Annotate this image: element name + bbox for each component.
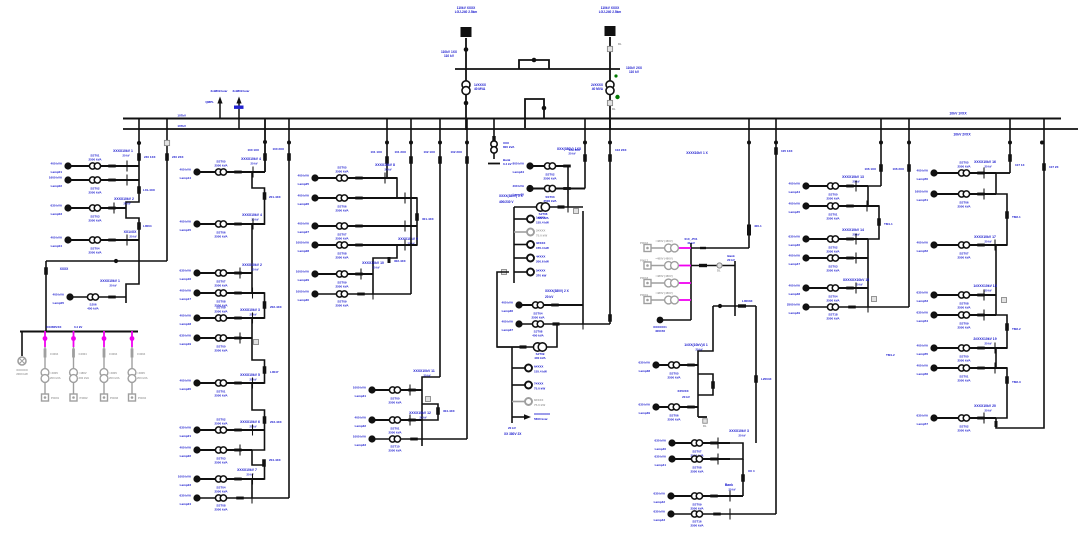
wire feeder L4 — [288, 118, 290, 499]
svg-text:XXXX10kV 11: XXXX10kV 11 — [413, 369, 435, 373]
svg-text:1600 kVA: 1600 kVA — [49, 176, 63, 180]
value label C1-3 — [88, 215, 102, 223]
load Lamp18 — [193, 314, 200, 321]
load Lamp35 — [526, 185, 533, 192]
svg-text:106 2XX: 106 2XX — [892, 167, 904, 171]
svg-text:2500 kVA: 2500 kVA — [214, 283, 228, 287]
load panel P4002 — [70, 394, 77, 401]
svg-text:630 kVA: 630 kVA — [180, 426, 192, 430]
svg-text:Lamp02: Lamp02 — [51, 184, 63, 188]
svg-text:400 kVA: 400 kVA — [917, 169, 929, 173]
wire house branch — [70, 296, 126, 298]
disconnector C3-4 — [404, 240, 406, 251]
wire feeder L14 — [775, 118, 777, 515]
breaker closed feeder 2 — [71, 336, 76, 341]
value label C5-1 — [543, 173, 557, 181]
svg-text:20 kV: 20 kV — [984, 342, 991, 346]
breaker CB left open — [502, 270, 507, 275]
svg-text:=480V: =480V — [137, 371, 145, 375]
disconnector C9-8 — [983, 413, 985, 424]
svg-text:Lamp45: Lamp45 — [789, 210, 801, 214]
load Lamp37 — [515, 320, 522, 327]
wire feeder branch C2-10 — [197, 478, 265, 480]
wire branch C7-6 to feeder L16 — [806, 306, 909, 308]
transformer C4-1 — [389, 387, 400, 393]
breaker column3 b — [388, 257, 391, 263]
disconnector maintenance I — [567, 202, 569, 213]
wire house left drop — [45, 261, 47, 331]
breaker C3-1 — [355, 177, 363, 180]
svg-text:Lamp01: Lamp01 — [51, 170, 63, 174]
breaker T2 LV open — [607, 100, 612, 105]
svg-text:LGJ-240 2.5km: LGJ-240 2.5km — [599, 10, 622, 14]
disconnector column4 a — [436, 407, 440, 415]
transformer 380V feeder 4 — [128, 369, 136, 383]
load Lamp55 — [930, 344, 937, 351]
value label C5-4 — [532, 330, 544, 338]
value label C6-6 — [690, 520, 704, 528]
load Lamp17 — [193, 289, 200, 296]
svg-text:C4004: C4004 — [109, 352, 118, 356]
wire collector right-center — [730, 443, 743, 459]
label motor M4 — [536, 255, 549, 264]
value label C2-2 — [214, 231, 228, 239]
wire branch C4-3 to feeder L8 — [372, 438, 467, 440]
svg-text:XXXX10kV 6: XXXX10kV 6 — [240, 420, 260, 424]
svg-text:400 kVA: 400 kVA — [355, 416, 367, 420]
transformer C7-1 — [827, 183, 838, 189]
breaker C6-4 — [710, 458, 718, 461]
transformer C3-5 — [336, 271, 347, 277]
svg-text:2500 kVA: 2500 kVA — [957, 378, 971, 382]
svg-text:Lamp32: Lamp32 — [355, 424, 367, 428]
svg-text:Lamp37: Lamp37 — [502, 328, 514, 332]
wire feeder branch C3-4 — [315, 244, 417, 246]
svg-text:101 1XX: 101 1XX — [370, 150, 382, 154]
wire maintenance 380V header — [514, 206, 583, 208]
label transformer feeder 3 — [109, 371, 120, 380]
wire motor branch 1 — [514, 218, 527, 220]
svg-text:20 kV: 20 kV — [423, 374, 430, 378]
svg-text:XXXX10kV 7: XXXX10kV 7 — [237, 468, 257, 472]
svg-text:Lamp17: Lamp17 — [180, 297, 192, 301]
svg-text:XXXX10kV 4: XXXX10kV 4 — [242, 213, 262, 217]
svg-text:630 kVA: 630 kVA — [654, 492, 666, 496]
svg-text:P0019: P0019 — [640, 293, 649, 297]
svg-text:400 kVA: 400 kVA — [917, 364, 929, 368]
disconnector column9 a — [1005, 211, 1009, 219]
disconnector C2-5 — [252, 313, 254, 324]
load label Lamp04 — [51, 236, 63, 249]
svg-text:400 kVA: 400 kVA — [917, 241, 929, 245]
breaker C5-4 — [553, 322, 560, 325]
label motor M7 — [534, 382, 545, 391]
svg-text:2x9809 kvar: 2x9809 kvar — [232, 89, 250, 93]
breaker C1-3 — [108, 207, 116, 210]
svg-text:1#XXX: 1#XXX — [536, 216, 545, 220]
svg-text:2500 kVA: 2500 kVA — [214, 309, 228, 313]
svg-text:400 kVA: 400 kVA — [789, 202, 801, 206]
breaker C6-5 — [710, 495, 718, 498]
disconnector L12 lower — [608, 314, 612, 322]
svg-text:2500 kVA: 2500 kVA — [690, 523, 704, 527]
breaker column2 open — [254, 340, 259, 345]
value label C9-4 — [957, 302, 971, 310]
svg-text:400 kVA: 400 kVA — [789, 284, 801, 288]
svg-text:Lamp40: Lamp40 — [655, 447, 667, 451]
load label Lamp23 — [178, 475, 192, 488]
disconnector column2 a — [263, 192, 267, 200]
breaker house branch — [108, 296, 116, 299]
disconnector column9 c — [1005, 376, 1009, 384]
value label C6-5 — [690, 503, 704, 511]
svg-text:Lamp24: Lamp24 — [180, 502, 192, 506]
transformer C5-1 — [544, 163, 555, 169]
load label Lamp45 — [789, 202, 801, 215]
disconnector C3-1 — [384, 173, 386, 184]
breaker C5-2 — [563, 187, 571, 190]
svg-text:3#XXX: 3#XXX — [536, 241, 545, 245]
motor M2 — [527, 229, 534, 236]
net label group 2e — [240, 373, 260, 382]
transformer T2 main — [606, 81, 614, 95]
svg-text:240 2XX: 240 2XX — [172, 155, 184, 159]
svg-text:630 kVA: 630 kVA — [639, 361, 651, 365]
svg-text:102 2XX: 102 2XX — [450, 150, 462, 154]
fuse feeder 4 — [131, 349, 134, 358]
svg-text:400 kVA: 400 kVA — [532, 333, 544, 337]
svg-text:TM2-1: TM2-1 — [1012, 215, 1021, 219]
net label group 6b — [725, 483, 736, 492]
wire feeder branch C1-2 — [68, 179, 139, 181]
wire collector right-center lower — [742, 459, 744, 496]
load Lamp46 — [802, 235, 809, 242]
bus 380V house — [20, 331, 138, 333]
svg-text:XXXX: XXXX — [60, 267, 69, 271]
svg-text:=480V: =480V — [50, 371, 58, 375]
transformer C2-1 — [215, 169, 226, 175]
svg-text:400 kVA: 400 kVA — [51, 236, 63, 240]
load Lamp20 — [193, 379, 200, 386]
svg-text:XXXX10kV 10: XXXX10kV 10 — [362, 261, 384, 265]
svg-text:20 kV: 20 kV — [984, 409, 991, 413]
svg-text:200.6 kW: 200.6 kW — [536, 260, 549, 264]
generator G1 standby — [18, 357, 26, 365]
disconnector L11 — [583, 154, 587, 162]
load label Lamp41 — [655, 455, 667, 468]
breaker C9-1 — [977, 172, 985, 175]
disconnector C4-1 — [409, 385, 411, 396]
svg-text:2500 kVA: 2500 kVA — [826, 249, 840, 253]
value label C2-9 — [214, 457, 228, 465]
svg-text:400 kVA: 400 kVA — [789, 182, 801, 186]
source label line B — [599, 6, 622, 14]
load label Lamp37 — [502, 320, 514, 333]
svg-text:400 kVA: 400 kVA — [180, 220, 192, 224]
transformer C2-4 — [215, 290, 226, 296]
load label Lamp51 — [915, 190, 929, 203]
svg-text:105 1XX: 105 1XX — [781, 149, 793, 153]
svg-text:204-4XX: 204-4XX — [269, 458, 281, 462]
disconnector C7-3 — [855, 234, 857, 245]
svg-text:2500 kVA: 2500 kVA — [388, 430, 402, 434]
net label feeder group 1c — [124, 230, 138, 239]
label generator G1 — [16, 368, 28, 376]
breaker C3-3 — [355, 225, 363, 228]
wire emergency bottom — [660, 319, 691, 321]
disconnector L2 — [165, 153, 169, 161]
breaker C9-3 — [977, 244, 985, 247]
svg-text:304-4XX: 304-4XX — [443, 409, 455, 413]
svg-text:Lamp05: Lamp05 — [53, 301, 65, 305]
wire feeder branch C3-3 — [315, 225, 417, 227]
svg-text:Lamp16: Lamp16 — [180, 277, 192, 281]
disconnector column2 b — [263, 301, 267, 309]
junction house header — [114, 259, 118, 263]
indicator green 1 — [614, 74, 617, 77]
svg-text:7#XXX: 7#XXX — [534, 382, 543, 386]
wire feeder branch C5-3 — [519, 304, 583, 306]
svg-text:P0017: P0017 — [640, 259, 649, 263]
svg-text:Lamp28: Lamp28 — [298, 249, 310, 253]
svg-text:P0016: P0016 — [640, 241, 649, 245]
svg-text:2500 kVA: 2500 kVA — [690, 469, 704, 473]
svg-text:40 MVA: 40 MVA — [474, 87, 486, 91]
svg-text:400 kVA: 400 kVA — [502, 301, 514, 305]
svg-text:=480V: =480V — [109, 371, 117, 375]
wire feeder branch C6-3 — [672, 442, 730, 444]
value label C2-8 — [214, 418, 228, 426]
breaker C3-2 — [355, 197, 363, 200]
svg-text:5#XXX: 5#XXX — [536, 269, 545, 273]
breaker C6-2 — [687, 406, 695, 409]
svg-text:630 kVA: 630 kVA — [180, 494, 192, 498]
transformer C3-1 — [336, 175, 347, 181]
label motor M5 — [536, 269, 547, 278]
value label C7-2 — [826, 213, 840, 221]
load label Lamp34 — [513, 162, 525, 175]
svg-text:107kV: 107kV — [177, 124, 186, 128]
load label Lamp18 — [180, 314, 192, 327]
breaker row2 — [699, 264, 707, 267]
disconnector C3-5 — [360, 269, 362, 280]
wire feeder branch C9-8 — [934, 417, 996, 419]
svg-text:4#XXX: 4#XXX — [536, 255, 545, 259]
breaker C2-3 — [234, 272, 242, 275]
load label Lamp43 — [654, 510, 666, 523]
value label C7-6 — [826, 313, 840, 321]
transformer C9-1 — [958, 170, 969, 176]
breaker T1 LV — [464, 101, 469, 106]
svg-text:100 1XX: 100 1XX — [247, 148, 259, 152]
transformer C2-8 — [215, 427, 226, 433]
breaker C9-4 — [977, 294, 985, 297]
wire capacitor header — [713, 305, 756, 307]
svg-text:Lamp50: Lamp50 — [917, 177, 929, 181]
load label Lamp22 — [180, 446, 192, 459]
value label C3-6 — [335, 300, 349, 308]
disconnector C5-2 — [567, 183, 569, 194]
transformer gray feeder 4 — [665, 296, 679, 304]
breaker C1-4 — [108, 239, 116, 242]
ground capacitor collector — [698, 416, 707, 418]
disconnector wrap — [995, 421, 998, 427]
label motor M6 — [534, 365, 547, 374]
svg-text:200 kVA: 200 kVA — [50, 376, 61, 380]
breaker C7-4 — [846, 257, 854, 260]
svg-text:2500 kVA: 2500 kVA — [335, 303, 349, 307]
load label Lamp36 — [502, 301, 514, 314]
transformer C7-6 — [827, 304, 838, 310]
transformer C1-1 — [89, 163, 100, 169]
svg-text:2500 kVA: 2500 kVA — [214, 163, 228, 167]
svg-text:0.4 kV: 0.4 kV — [74, 325, 82, 329]
svg-text:Lamp56: Lamp56 — [917, 372, 929, 376]
svg-text:1000 kVA: 1000 kVA — [296, 241, 310, 245]
breaker C9-6 — [977, 347, 985, 350]
value label maintenance I — [537, 212, 549, 220]
breaker bus-tie 110kV — [532, 58, 537, 63]
transformer C3-6 — [336, 291, 347, 297]
breaker closed feeder 3 — [102, 336, 107, 341]
wire energized feeder 2 — [679, 265, 691, 267]
svg-text:202-4XX: 202-4XX — [270, 305, 282, 309]
load Lamp14 — [193, 168, 200, 175]
load Lamp31 — [368, 386, 375, 393]
svg-text:XX 4: XX 4 — [748, 469, 755, 473]
transformer C2-2 — [215, 221, 226, 227]
transformer C9-7 — [958, 365, 969, 371]
wire gray feeder 1 — [651, 247, 678, 249]
disconnector C6-4 — [717, 454, 719, 465]
svg-text:XX380VXX: XX380VXX — [46, 325, 62, 329]
svg-text:1#XX(10kV)X 1: 1#XX(10kV)X 1 — [684, 343, 708, 347]
transformer C9-6 — [958, 345, 969, 351]
load Lamp57 — [930, 414, 937, 421]
label station ground — [503, 158, 512, 166]
svg-text:Lamp55: Lamp55 — [917, 352, 929, 356]
value label C6-4 — [690, 466, 704, 474]
indicator green 2 — [615, 95, 619, 99]
wire C9-1 tail — [996, 172, 1010, 174]
wire feeder branch C2-8 — [197, 429, 265, 431]
svg-text:240 1XX: 240 1XX — [144, 155, 156, 159]
svg-text:20 kV: 20 kV — [984, 240, 991, 244]
wire 380V feeder 1 lower — [44, 347, 46, 394]
load Lamp03 — [64, 204, 71, 211]
load Lamp25 — [311, 174, 318, 181]
transformer C7-5 — [827, 285, 838, 291]
motor M1 — [527, 216, 534, 223]
svg-text:Lamp38: Lamp38 — [639, 369, 651, 373]
load label Lamp38 — [639, 361, 651, 374]
net label group 6a — [729, 429, 749, 438]
transformer C4-2 — [389, 417, 400, 423]
disconnector L8 — [465, 156, 469, 164]
svg-text:2500 kVA: 2500 kVA — [214, 489, 228, 493]
label transformer feeder 4 — [137, 371, 148, 380]
svg-text:Lamp47: Lamp47 — [789, 262, 801, 266]
wire feeder L3 — [264, 118, 266, 173]
svg-text:75.0 kW: 75.0 kW — [534, 387, 545, 391]
svg-text:Lamp23: Lamp23 — [180, 483, 192, 487]
svg-text:Lamp53: Lamp53 — [917, 299, 929, 303]
svg-text:Lamp39: Lamp39 — [639, 411, 651, 415]
breaker capacitor header — [738, 304, 746, 307]
svg-text:10kV 1#XX: 10kV 1#XX — [949, 112, 967, 116]
load label Lamp29 — [296, 270, 310, 283]
wire capacitor left leg — [698, 306, 713, 417]
disconnector L7 — [438, 156, 442, 164]
svg-text:20 kV: 20 kV — [249, 313, 256, 317]
value label C9-5 — [957, 322, 971, 330]
net label group 4b — [409, 411, 431, 420]
svg-text:155.4 kW: 155.4 kW — [534, 370, 547, 374]
svg-text:40 MVA: 40 MVA — [592, 87, 604, 91]
svg-text:P4002: P4002 — [80, 396, 89, 400]
svg-text:630 kVA: 630 kVA — [917, 414, 929, 418]
disconnector C1-2 — [126, 175, 128, 186]
wire feeder A — [465, 38, 467, 130]
label station transformer — [503, 141, 515, 149]
wire feeder branch C9-4 — [934, 294, 996, 296]
load Lamp04 — [64, 236, 71, 243]
svg-text:Lamp15: Lamp15 — [180, 228, 192, 232]
svg-text:20 kV: 20 kV — [123, 202, 130, 206]
transformer 380V feeder 1 — [41, 369, 49, 383]
svg-text:5600 kvar: 5600 kvar — [534, 417, 549, 421]
transformer C9-2 — [958, 191, 969, 197]
breaker C4-3 — [410, 438, 418, 441]
disconnector C4-2 — [409, 415, 411, 426]
svg-text:Lamp21: Lamp21 — [180, 434, 192, 438]
value label C3-5 — [335, 281, 349, 289]
transformer C6-3 — [691, 440, 702, 446]
wire feeder branch C2-5 — [197, 317, 265, 319]
breaker C7-2 — [846, 205, 854, 208]
load Lamp49 — [802, 303, 809, 310]
wire feeder branch C2-7 — [197, 382, 265, 384]
breaker feeder x1010 — [1008, 141, 1012, 145]
wire maintenance loop left — [497, 272, 523, 347]
wire feeder branch C9-1 — [934, 172, 996, 174]
load Lamp29 — [311, 270, 318, 277]
svg-text:=480V (480V): =480V (480V) — [655, 257, 672, 261]
wire motor branch 8 — [512, 401, 525, 403]
svg-text:L0047: L0047 — [270, 370, 279, 374]
svg-text:107 2X: 107 2X — [1049, 165, 1059, 169]
svg-text:400 kVA: 400 kVA — [180, 446, 192, 450]
net label 380V II section — [545, 289, 570, 299]
svg-text:Lamp30: Lamp30 — [298, 298, 310, 302]
motor M7 — [525, 382, 532, 389]
value label C2-5 — [214, 306, 228, 314]
transformer C2-7 — [215, 380, 226, 386]
net label group 9b — [974, 235, 996, 244]
transformer C6-6 — [691, 511, 702, 517]
wire motor branch 6 — [512, 367, 525, 369]
svg-text:400156: 400156 — [655, 329, 665, 333]
wire collector column 7 — [868, 186, 881, 307]
svg-text:2500 kVA: 2500 kVA — [826, 316, 840, 320]
net label group 7b — [842, 228, 864, 237]
svg-text:DL: DL — [703, 424, 707, 428]
svg-text:20 kV: 20 kV — [249, 425, 256, 429]
net label emergency — [684, 237, 697, 245]
wire collector column 9 — [996, 173, 1010, 418]
disconnector C4-3 — [421, 434, 423, 445]
svg-text:XXXX10kV 2: XXXX10kV 2 — [114, 197, 134, 201]
